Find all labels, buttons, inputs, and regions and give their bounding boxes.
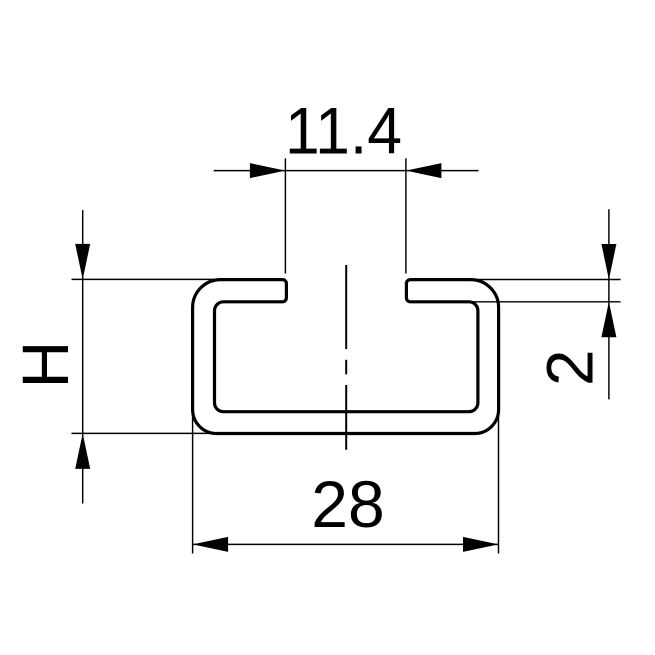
dimension 11.4: right arrowhead (406, 163, 442, 178)
dimension 28: extension and dimension lines (overall width, bottom) (193, 410, 499, 554)
dimension H: extension and dimension lines (overall height, left) (72, 210, 221, 503)
dimension H: bottom arrowhead (75, 433, 90, 469)
dimension 11.4: extension and dimension lines (slot width, top) (214, 158, 479, 273)
svg-text:H: H (8, 341, 82, 389)
svg-text:28: 28 (311, 467, 384, 541)
dimension 28: left arrowhead (193, 537, 229, 552)
svg-text:11.4: 11.4 (285, 94, 402, 168)
dimension 11.4: left arrowhead (250, 163, 286, 178)
svg-text:2: 2 (533, 349, 607, 386)
dimension 2: top arrowhead (601, 244, 616, 280)
vertical centerline (dash-dot) (345, 265, 347, 450)
dimension 28: right arrowhead (463, 537, 499, 552)
dimension 2: bottom arrowhead (601, 302, 616, 338)
dimension 2: extension and dimension lines (wall thickness, right) (472, 209, 621, 399)
C-channel profile cross-section outline (193, 280, 499, 434)
dimension H: top arrowhead (75, 244, 90, 280)
